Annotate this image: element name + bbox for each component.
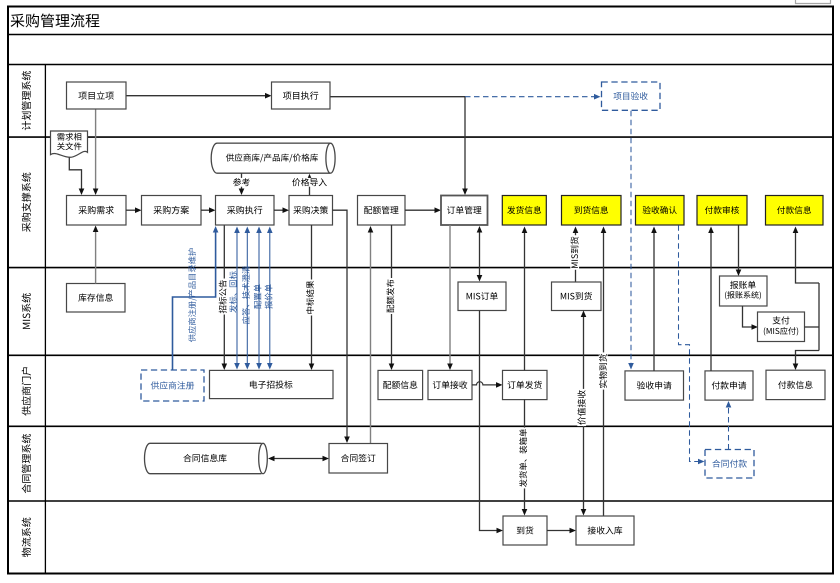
- blue wire 发标、回标: [234, 227, 240, 370]
- wire 报账单→支付: [743, 306, 759, 330]
- box 订单接收: [428, 370, 472, 399]
- title row divider: [8, 34, 833, 36]
- wire 合同签订→配额管理: [368, 226, 374, 444]
- blue label 配置单: [254, 284, 262, 308]
- box 采购执行: [216, 196, 275, 226]
- box 电子招投标: [210, 370, 334, 398]
- cylinder 供应商库/产品库/价格库: [211, 143, 335, 173]
- dashed wire 项目验收→验收申请: [628, 111, 634, 370]
- blue label 应答、技术澄清: [242, 266, 250, 324]
- empty row divider: [8, 64, 833, 66]
- wire 需求相关文件→采购需求: [69, 158, 84, 196]
- box 订单发货: [503, 370, 548, 399]
- lane divider 4-5: [8, 425, 833, 427]
- title 采购管理流程: [11, 14, 100, 28]
- lane divider 2-3: [8, 267, 833, 269]
- blue wire 配置单: [256, 227, 262, 370]
- blue wire 供应商注册→采购执行: [173, 226, 219, 370]
- box 接收入库: [576, 516, 634, 545]
- box 报账单(报账系统): [720, 276, 768, 306]
- wire 付款申请→付款审核: [708, 227, 714, 371]
- wire 项目立项→项目执行: [126, 93, 272, 99]
- box 到货: [503, 516, 547, 545]
- label MIS到货: [570, 235, 579, 270]
- lane label 合同管理系统: [22, 434, 31, 493]
- wire 项目执行→订单管理: [330, 97, 468, 195]
- blue wire 应答、技术澄清: [245, 227, 251, 370]
- wire 订单发货→到货: [522, 400, 528, 516]
- lane label column separator: [44, 65, 46, 574]
- wire 实物到货 接收入库→到货信息: [599, 227, 608, 517]
- gray page corner mark: [796, 0, 831, 4]
- wire 配额发布 配额管理→配额信息: [386, 225, 395, 370]
- wire 付款审核→报账单: [736, 225, 742, 276]
- lane label 物流系统: [22, 518, 31, 557]
- box MIS到货: [552, 282, 602, 311]
- wire 订单管理↔MIS订单: [477, 226, 483, 282]
- box 采购方案: [142, 196, 202, 226]
- box 付款信息 lane4: [766, 370, 825, 399]
- box 配额信息: [378, 370, 423, 399]
- dashed wire 验收确认→合同付款: [679, 225, 705, 464]
- box 验收确认: [636, 196, 685, 226]
- document 需求相关文件: [51, 131, 88, 157]
- blue label 供应商注册/产品目录维护: [188, 248, 197, 342]
- wire 项目立项→采购需求: [93, 109, 99, 195]
- wire 库存信息→采购需求: [93, 226, 99, 284]
- blue label 报价单: [265, 284, 273, 309]
- box 支付(MIS应付): [758, 312, 805, 342]
- wire 合同信息库↔合同签订: [268, 456, 329, 462]
- box 配额管理: [358, 196, 406, 226]
- wire MIS到货→到货信息: [573, 227, 579, 283]
- wire 中标结果 采购决策→电子招投标: [306, 225, 315, 370]
- lane divider 1-2: [8, 136, 833, 138]
- box 验收申请: [625, 371, 684, 400]
- dashed box 项目验收: [602, 82, 661, 110]
- lane label 采购支撑系统: [22, 173, 31, 232]
- wire 价格导入 采购决策→cylinder: [291, 174, 328, 196]
- wire 参考 cylinder→采购执行: [232, 174, 252, 196]
- wire 订单管理→订单接收: [447, 225, 453, 370]
- wire MIS订单→到货: [480, 311, 504, 534]
- wire 采购执行→采购决策: [274, 207, 289, 213]
- box 合同签订: [329, 444, 388, 474]
- box 付款申请: [705, 371, 753, 400]
- box 付款审核: [697, 196, 747, 226]
- wire 采购方案→采购执行: [201, 207, 216, 213]
- wire MIS到货↔接收入库 价值接收: [577, 311, 586, 516]
- wire 配额管理→订单管理: [405, 207, 441, 213]
- dashed box 供应商注册: [141, 370, 204, 401]
- box MIS订单: [458, 282, 506, 311]
- box 订单管理: [441, 196, 488, 226]
- lane label 供应商门户: [22, 367, 31, 415]
- lane label MIS系统: [22, 293, 31, 329]
- blue label 发标、回标: [229, 271, 237, 312]
- box 采购需求: [67, 196, 127, 226]
- lane label 计划管理系统: [22, 71, 31, 130]
- dashed wire 合同付款→付款申请: [726, 401, 732, 450]
- wire 订单发货→发货信息: [522, 227, 528, 371]
- box 到货信息: [562, 196, 622, 226]
- wire 采购决策→合同签订: [333, 210, 350, 443]
- dashed box 合同付款: [705, 450, 754, 479]
- blue wire 报价单: [267, 227, 273, 370]
- wire 订单接收→订单发货 with hop: [472, 382, 503, 388]
- label 发货单、装箱单: [519, 428, 527, 489]
- box 付款信息 lane2: [766, 196, 824, 226]
- lane divider 5-6: [8, 500, 833, 502]
- box 发货信息: [502, 196, 546, 226]
- box 项目立项: [67, 82, 127, 109]
- dashed wire 项目执行→项目验收: [465, 94, 601, 100]
- wire 支付→付款信息 lanes: [793, 227, 819, 371]
- wire 采购需求→采购方案: [126, 207, 142, 213]
- box 项目执行: [272, 82, 331, 109]
- wire 招标公告 采购执行→电子招投标: [219, 226, 228, 371]
- cylinder 合同信息库: [145, 443, 268, 473]
- wire 验收申请→验收确认: [651, 227, 657, 371]
- lane divider 3-4: [8, 354, 833, 356]
- box 采购决策: [289, 196, 333, 226]
- wire 到货→接收入库: [547, 528, 576, 534]
- box 库存信息: [67, 284, 126, 313]
